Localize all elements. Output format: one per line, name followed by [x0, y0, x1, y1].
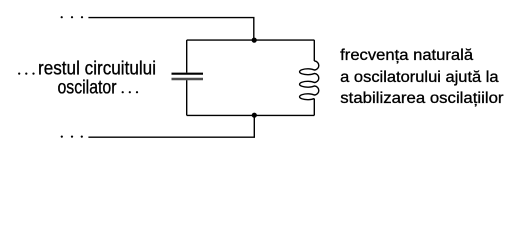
- wire tank bottom: [187, 114, 315, 116]
- capacitor C1 bottom plate: [172, 78, 204, 81]
- svg-text:stabilizarea oscilațiilor: stabilizarea oscilațiilor: [340, 90, 504, 107]
- wire inductor bottom: [313, 99, 315, 116]
- ellipsis dots bottom-left: [61, 136, 83, 138]
- label left line1 leading ellipsis: [18, 73, 35, 75]
- label left line2 trailing ellipsis: [122, 91, 138, 93]
- capacitor C1 top plate: [172, 73, 204, 75]
- svg-text:oscilator: oscilator: [58, 77, 117, 98]
- wire bottom lead-out: [88, 115, 254, 137]
- svg-text:frecvența naturală: frecvența naturală: [340, 47, 473, 64]
- inductor L1: [300, 61, 319, 100]
- node top junction: [252, 38, 257, 43]
- ellipsis dots top-left: [61, 16, 83, 18]
- wire capacitor bottom: [186, 80, 188, 115]
- node bottom junction: [252, 113, 257, 118]
- svg-text:a oscilatorului ajută la: a oscilatorului ajută la: [340, 69, 498, 86]
- wire top lead-in: [88, 18, 253, 40]
- wire tank top: [187, 39, 315, 41]
- wire inductor top: [313, 40, 315, 61]
- wire capacitor top: [186, 40, 188, 73]
